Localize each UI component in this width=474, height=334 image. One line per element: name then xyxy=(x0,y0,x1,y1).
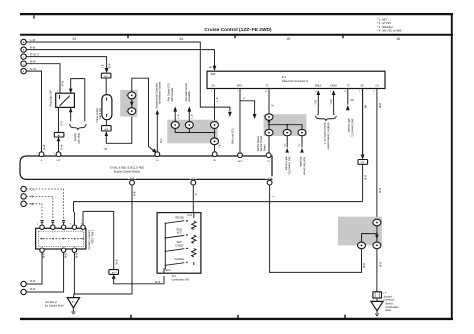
connector E07 xyxy=(109,270,119,275)
wire D from circle D down to stop light switch xyxy=(26,64,60,93)
svg-text:7 B: 7 B xyxy=(104,149,108,151)
svg-text:W–B: W–B xyxy=(380,188,382,193)
yaw rate rotated label xyxy=(185,83,191,102)
combination SW left common bus xyxy=(164,223,165,273)
cancel switch blade xyxy=(165,263,184,266)
G-O label xyxy=(62,121,64,126)
svg-text:R–B: R–B xyxy=(135,191,137,196)
wire ECM D06 down to ground bus xyxy=(74,185,133,294)
ellipse connector pair B1 upper xyxy=(128,92,136,99)
connector circle D xyxy=(21,61,26,66)
svg-text:MPX: MPX xyxy=(237,84,243,87)
svg-text:7 B: 7 B xyxy=(220,144,222,148)
skid control arrow wire 1 xyxy=(174,112,176,122)
combination switch box xyxy=(157,213,201,274)
gray box 2 xyxy=(167,120,217,144)
svg-text:SD: SD xyxy=(361,84,365,87)
svg-text:Assembly: Assembly xyxy=(188,90,191,101)
frame top border line xyxy=(20,13,453,15)
left circle W-B 1 xyxy=(21,281,26,286)
data link connector 3 box xyxy=(207,71,385,88)
TS wire arrow xyxy=(347,89,349,105)
svg-text:* 1 : M/T: * 1 : M/T xyxy=(377,18,387,22)
svg-text:W–B: W–B xyxy=(380,103,382,108)
vehicle speed sensor arrow xyxy=(253,114,257,119)
svg-text:GR: GR xyxy=(350,100,354,102)
wire 3b down to I7 xyxy=(376,249,378,292)
link between pair with arrow xyxy=(131,99,133,108)
stop light switch box xyxy=(56,93,75,107)
connector circle E xyxy=(21,68,26,73)
arrow into IK4 xyxy=(361,155,365,160)
frame second border line xyxy=(20,34,453,36)
junction connector label xyxy=(87,230,93,250)
svg-text:16: 16 xyxy=(396,37,400,41)
stop light switch label xyxy=(49,90,53,107)
ground triangle left xyxy=(67,298,79,308)
gray box 4 xyxy=(264,114,307,136)
wire junction bottom pin3 to ground xyxy=(73,252,74,297)
SD wire down to IK4 xyxy=(362,89,364,156)
junction top pin 4 xyxy=(72,225,76,229)
skid control rotated label below xyxy=(284,157,290,176)
ellipse connector 4d xyxy=(298,129,306,135)
wire A destination rotated label xyxy=(232,128,235,144)
junction connector dotted bus xyxy=(40,238,82,240)
multiplex rotated label xyxy=(323,123,329,150)
svg-text:13: 13 xyxy=(72,37,76,41)
svg-text:L–B: L–B xyxy=(217,97,219,102)
res acc switch blade xyxy=(165,235,184,238)
svg-text:Behind: Behind xyxy=(386,304,394,306)
svg-text:Clutch SW: Clutch SW xyxy=(99,108,102,120)
terminal symbols on dashed wires xyxy=(41,221,66,223)
svg-text:System: System xyxy=(74,133,77,141)
svg-text:D 1: D 1 xyxy=(282,75,287,79)
svg-text:with Actuator: with Actuator xyxy=(284,157,287,171)
ground tail right xyxy=(375,311,379,316)
ECM bottom pin CCS xyxy=(190,176,198,179)
ellipse connector 4c xyxy=(283,129,291,135)
svg-text:Engine Control Module: Engine Control Module xyxy=(114,169,141,173)
svg-text:4: 4 xyxy=(211,91,212,93)
cruise switch blade xyxy=(165,221,188,224)
wire TC down to gray box 4 xyxy=(268,89,270,114)
note legend top right xyxy=(377,18,402,33)
bottom border ticks xyxy=(131,315,345,318)
W-B label on E07 wire xyxy=(117,259,119,264)
arrow under A26 xyxy=(105,131,109,136)
ECM pin circle STP xyxy=(56,152,61,157)
svg-text:ACC: ACC xyxy=(177,232,182,235)
wire E from circle E down to ECM pin 1 xyxy=(26,71,41,152)
wire ECM CCS down to combination SW xyxy=(192,185,194,213)
skid control label under TS xyxy=(347,119,353,138)
gray box 1 connector pair xyxy=(120,90,137,117)
svg-text:4: 4 xyxy=(373,91,374,93)
dashed wire 3 xyxy=(26,204,42,219)
svg-text:TC: TC xyxy=(266,84,269,87)
EMLS wire down xyxy=(317,94,318,115)
grid ticks on second line xyxy=(128,35,343,39)
internal links gray box 4 xyxy=(269,120,302,130)
vehicle speed sensor stub xyxy=(240,101,255,114)
svg-text:MPX: MPX xyxy=(238,161,243,163)
svg-text:14: 14 xyxy=(179,37,183,41)
junction top pin 2 xyxy=(51,225,55,229)
svg-text:W–B: W–B xyxy=(117,259,119,264)
wire SIL down to gray box 2 right pair xyxy=(214,89,216,122)
arrow below E07 xyxy=(112,274,116,279)
svg-text:Combination SW: Combination SW xyxy=(172,278,190,281)
svg-text:Assembly: Assembly xyxy=(299,157,302,168)
wire B arrow into BAT xyxy=(213,66,217,71)
vehicle speed sensor rotated label xyxy=(257,135,267,151)
wire 4b down to ECM TC pin xyxy=(268,136,270,153)
svg-text:TS: TS xyxy=(347,84,350,87)
svg-text:W–B: W–B xyxy=(76,253,78,258)
yaw rate rotated label below xyxy=(299,157,305,176)
ellipse connector 4a xyxy=(265,114,273,120)
junction top pin 1 xyxy=(40,225,44,229)
G-W label lower xyxy=(62,144,64,150)
wire C arrow into connector A21 xyxy=(105,68,109,73)
svg-text:W–B: W–B xyxy=(43,253,45,258)
connector circle B xyxy=(21,47,26,52)
svg-text:7 B: 7 B xyxy=(103,64,105,68)
svg-text:BR: BR xyxy=(365,104,367,108)
svg-text:C13: C13 xyxy=(172,276,177,278)
ECM bottom pin D06 xyxy=(128,176,136,179)
svg-text:7B: 7B xyxy=(31,197,34,199)
arrow under connector A2 xyxy=(57,137,61,141)
svg-text:CYL: CYL xyxy=(31,189,36,191)
links gray box 3 xyxy=(362,226,377,242)
svg-text:W–B: W–B xyxy=(30,289,35,291)
CANH wire down xyxy=(334,94,335,115)
svg-text:G–W: G–W xyxy=(44,144,46,150)
frame right border xyxy=(451,14,453,320)
CG wire down to gray box 3 xyxy=(376,89,378,220)
connector A21 xyxy=(101,73,111,78)
ellipse connector 2d xyxy=(211,138,219,145)
svg-text:ECC: ECC xyxy=(166,270,171,272)
svg-text:14: 14 xyxy=(315,91,317,93)
svg-text:the Cylinder Head: the Cylinder Head xyxy=(45,304,64,307)
svg-text:W–B: W–B xyxy=(155,282,160,284)
svg-text:15: 15 xyxy=(286,37,290,41)
svg-text:CG: CG xyxy=(376,84,380,87)
svg-text:W–B: W–B xyxy=(365,175,367,180)
svg-text:L–W: L–W xyxy=(30,38,36,42)
arrow out of stop light SW bottom pin xyxy=(69,108,73,113)
connector A26 xyxy=(102,126,112,131)
internal link wires of gray box 2 xyxy=(175,128,214,138)
dashed wire 1 xyxy=(26,189,63,219)
svg-text:Data Link Connector 3: Data Link Connector 3 xyxy=(282,79,308,83)
svg-text:W–L: W–L xyxy=(161,138,163,143)
arrow into ECM pin OD xyxy=(152,149,157,154)
ellipse connector 3c xyxy=(358,242,366,249)
ellipse connector 2a xyxy=(171,122,179,129)
svg-text:B–W: B–W xyxy=(30,60,36,64)
wire B from circle B to DLC BAT pin xyxy=(26,50,214,67)
wire from stop light SW bottom right pin down xyxy=(70,107,72,121)
svg-text:Meter: Meter xyxy=(386,309,392,312)
wire from ECT system down to ECM pin xyxy=(156,114,158,153)
ellipse connector pair B1 lower xyxy=(128,108,136,115)
stop light system label xyxy=(74,133,80,144)
ECT rotated label xyxy=(155,82,161,109)
skid control rotated label xyxy=(168,82,174,101)
svg-text:CANCEL: CANCEL xyxy=(174,258,184,261)
connector circle C xyxy=(21,54,26,59)
pin stubs above junction pins 4 5 xyxy=(74,222,83,226)
ECM pin circle SIL2 xyxy=(212,152,217,157)
ECM bottom pin CCM xyxy=(266,176,274,179)
dashed wire 2 xyxy=(26,196,53,219)
arrow into stop light SW top right pin xyxy=(69,89,73,94)
left circle W-B 2 xyxy=(21,289,26,294)
wire junction pin5 to E07 xyxy=(83,211,114,269)
svg-text:12: 12 xyxy=(344,91,346,93)
wire E color label near ECM xyxy=(44,144,46,150)
svg-text:Stop Light SW: Stop Light SW xyxy=(49,90,53,107)
junction dot CCM xyxy=(269,201,271,203)
svg-text:* 2 : w/ VSC: * 2 : w/ VSC xyxy=(377,21,391,25)
wire 4d down offpage yaw xyxy=(301,136,303,148)
stop light switch blade xyxy=(60,95,71,106)
junction top pin 3 xyxy=(61,225,65,229)
svg-text:E 6(A), E 6(B), E 5(C), E 4(D): E 6(A), E 6(B), E 5(C), E 4(D) xyxy=(110,166,144,170)
svg-text:* 4 : w/o VSC w/ ABS: * 4 : w/o VSC w/ ABS xyxy=(377,29,402,33)
svg-text:Connector: Connector xyxy=(384,299,395,302)
wire E07 to combination switch ECC xyxy=(114,276,164,284)
ground tail left xyxy=(71,308,75,314)
junction bottom pin 2 xyxy=(61,248,65,252)
svg-text:7B: 7B xyxy=(31,204,34,206)
wire D color label on vertical xyxy=(63,80,65,86)
svg-text:W–B: W–B xyxy=(30,281,35,283)
wire 4c down offpage skid xyxy=(286,136,288,148)
svg-text:5: 5 xyxy=(359,91,360,93)
svg-text:CCS: CCS xyxy=(191,178,196,180)
svg-text:B–W: B–W xyxy=(63,80,65,86)
wire from stop light SW pin2 to ECM STP xyxy=(58,107,60,152)
right terminals xyxy=(186,221,188,262)
DLC pin numbers xyxy=(211,91,374,93)
multiplex brace xyxy=(316,116,337,121)
wire ECM CCM down joins bus and continues xyxy=(270,185,362,272)
junction bottom pin 1 xyxy=(40,248,44,252)
frame top tick xyxy=(33,15,35,19)
svg-text:L–B: L–B xyxy=(178,114,180,118)
svg-text:Cruise Control: Cruise Control xyxy=(96,107,99,122)
wire IK4 down to signal ground bus xyxy=(362,164,364,202)
bridge wire from stop light SW to stop light system xyxy=(71,79,85,122)
ellipse connector 2c xyxy=(211,122,219,129)
ECM pin circle R xyxy=(39,152,44,157)
wire C labels on vertical xyxy=(103,64,105,68)
svg-text:W–B: W–B xyxy=(65,253,67,258)
ECM pin circle MPX xyxy=(238,153,243,158)
svg-text:Combination: Combination xyxy=(386,306,400,309)
svg-text:L–B: L–B xyxy=(192,114,194,118)
svg-text:EMLS: EMLS xyxy=(315,84,322,87)
set coast switch blade xyxy=(165,249,184,252)
stop light system brace xyxy=(70,124,86,130)
svg-text:CRUISE: CRUISE xyxy=(175,216,184,219)
svg-text:with Actuator: with Actuator xyxy=(171,88,174,102)
svg-text:System (CAN) No. 4: System (CAN) No. 4 xyxy=(323,123,326,145)
frame bottom border line xyxy=(20,318,453,320)
svg-text:W–B: W–B xyxy=(381,262,383,267)
small circles column CYL xyxy=(21,186,26,191)
svg-text:with Actuator: with Actuator xyxy=(347,119,350,133)
wire A from circle A to x200 down to arrow at DLC area xyxy=(26,42,230,111)
junction bottom pin 3 xyxy=(72,248,76,252)
junction connector block xyxy=(36,228,86,249)
wire 2d down to ECM pin xyxy=(214,145,216,153)
connector circle A xyxy=(21,39,26,44)
svg-text:J 4(A), J 5(B): J 4(A), J 5(B) xyxy=(91,230,94,244)
ellipse connector 2b xyxy=(185,122,193,129)
wire A26 to lower ellipse connector xyxy=(106,114,132,143)
svg-text:7: 7 xyxy=(237,91,238,93)
svg-text:G–W: G–W xyxy=(30,67,36,71)
connector I7 box xyxy=(373,292,382,298)
svg-text:M: M xyxy=(272,106,274,108)
svg-text:R–B: R–B xyxy=(30,46,35,50)
svg-text:ENA: ENA xyxy=(130,177,135,180)
wire junction bottom pin1 to left circle xyxy=(26,252,42,284)
svg-text:OD: OD xyxy=(156,160,160,162)
svg-text:B–R: B–R xyxy=(109,63,111,68)
wire junction bottom pin2 to left circle 2 xyxy=(26,252,63,292)
wire up from pair to ECT path xyxy=(132,78,156,152)
svg-text:6: 6 xyxy=(330,91,331,93)
ECM pin circle OD xyxy=(155,152,160,157)
svg-text:Junction: Junction xyxy=(384,295,393,298)
svg-text:R–W *2: R–W *2 xyxy=(30,53,39,57)
svg-text:G–O: G–O xyxy=(62,121,64,126)
yaw rate sensor arrow wire 2 xyxy=(188,112,190,122)
wire A end arrow xyxy=(228,112,232,117)
wire C from circle C to clutch switch chain xyxy=(26,57,106,69)
svg-text:Left Side of: Left Side of xyxy=(45,301,57,304)
svg-text:Cruise Control (1ZZ–FE 2WD): Cruise Control (1ZZ–FE 2WD) xyxy=(204,27,272,33)
wire MPX down to ECM xyxy=(239,89,241,154)
svg-text:TC: TC xyxy=(267,161,270,163)
ellipse connector 3b xyxy=(373,242,381,249)
connector IK4 xyxy=(358,160,368,165)
engine control module box xyxy=(20,156,272,179)
signal ground bus wire from junction pin4 to IK4 xyxy=(74,202,363,225)
svg-text:CANH: CANH xyxy=(330,84,337,87)
gray box 3 xyxy=(338,217,382,246)
W-L label xyxy=(161,138,163,143)
ground triangle right xyxy=(371,301,383,310)
svg-text:COAST: COAST xyxy=(175,244,184,247)
svg-text:CCS: CCS xyxy=(187,215,192,217)
svg-text:Meter): Meter) xyxy=(263,144,266,151)
ECM pin circle TC xyxy=(266,153,271,158)
svg-text:Transmission System: Transmission System xyxy=(159,82,162,105)
svg-text:STP: STP xyxy=(56,160,61,162)
junction top pin 5 xyxy=(81,225,85,229)
ellipse connector 3a xyxy=(373,219,381,226)
svg-text:13: 13 xyxy=(265,91,267,93)
svg-text:Junction Connector: Junction Connector xyxy=(87,230,90,250)
svg-text:* 3 : Shielded: * 3 : Shielded xyxy=(377,25,393,29)
cruise control clutch switch label xyxy=(96,107,102,122)
svg-text:W–B: W–B xyxy=(364,263,366,268)
svg-text:EC: EC xyxy=(72,301,75,303)
cruise control clutch switch pill xyxy=(102,95,112,120)
connector A2 on STP wire xyxy=(54,132,64,137)
svg-text:G–W: G–W xyxy=(62,144,64,150)
svg-text:*3 W: *3 W xyxy=(331,99,333,105)
svg-text:Shift Lock ECU: Shift Lock ECU xyxy=(232,128,235,144)
svg-text:*3 B: *3 B xyxy=(316,100,318,105)
svg-text:BAT: BAT xyxy=(211,73,216,76)
svg-text:CCM: CCM xyxy=(267,178,272,180)
ellipse connector 4b xyxy=(265,129,273,135)
combination SW right bus and resistors xyxy=(192,213,196,265)
